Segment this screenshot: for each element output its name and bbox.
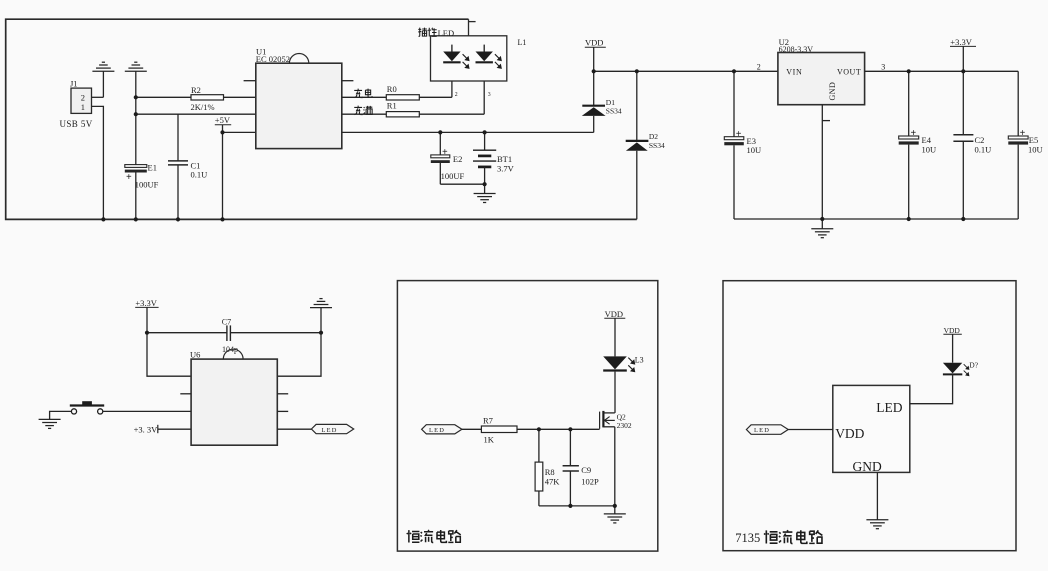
svg-text:LED: LED <box>876 400 902 415</box>
svg-text:6208-3.3V: 6208-3.3V <box>779 45 814 54</box>
svg-text:+: + <box>736 129 742 140</box>
wire D? to LED pin <box>910 374 953 403</box>
U6 left stub pin <box>180 393 191 395</box>
svg-text:SS34: SS34 <box>649 141 665 150</box>
ground (Q2 source) <box>604 506 626 523</box>
wire 7135 GND pin <box>876 472 878 519</box>
svg-text:LED: LED <box>754 427 770 434</box>
wire VDD row to U2 <box>594 70 778 72</box>
label chongdian (charging) <box>354 89 372 98</box>
capacitor C7 <box>147 317 321 353</box>
LED A inside L1 <box>443 45 469 69</box>
svg-text:7135: 7135 <box>735 531 760 545</box>
wire VOUT row <box>865 70 1019 72</box>
svg-text:102P: 102P <box>581 477 599 487</box>
U2 GND pin stem <box>822 105 830 229</box>
ground (U2) <box>811 229 833 238</box>
ground (battery) <box>474 194 496 203</box>
svg-text:L1: L1 <box>518 38 527 47</box>
svg-text:VDD: VDD <box>835 426 864 441</box>
net flag LED (U6 output) <box>277 424 353 434</box>
svg-text:U6: U6 <box>190 349 200 359</box>
wire J1 pin1 to bottom rail <box>92 106 104 219</box>
svg-text:2302: 2302 <box>617 421 632 430</box>
svg-text:R1: R1 <box>387 101 397 111</box>
svg-text:+3. 3V: +3. 3V <box>134 424 159 434</box>
ground (button) <box>39 419 61 428</box>
svg-text:USB 5V: USB 5V <box>60 119 93 129</box>
svg-text:2: 2 <box>757 62 761 71</box>
svg-text:+: + <box>442 147 448 158</box>
svg-text:VDD: VDD <box>605 309 623 319</box>
wire bottom row (middle box) <box>539 505 615 507</box>
net VDD (7135 led) <box>943 326 961 363</box>
svg-text:100UF: 100UF <box>441 171 465 181</box>
capacitor C2 <box>953 71 991 219</box>
svg-text:3: 3 <box>881 62 885 71</box>
svg-text:0.1U: 0.1U <box>975 144 992 154</box>
svg-text:+5V: +5V <box>215 115 231 125</box>
IC U6 <box>190 349 277 445</box>
wire frame to L1 top <box>468 19 470 36</box>
svg-text:E1: E1 <box>148 162 157 172</box>
IC U1 <box>256 46 342 148</box>
wire battery row <box>342 131 594 133</box>
wire J1 pin2 to ground <box>92 96 104 98</box>
capacitor E5 <box>1008 71 1042 219</box>
svg-text:2: 2 <box>455 92 458 98</box>
LED L3 <box>603 356 643 413</box>
label hengliu dianlu (constant current circuit) <box>407 530 461 543</box>
wire U1 pin row 2 <box>136 113 256 115</box>
resistor R2 <box>136 85 256 112</box>
net VDD (battery node) <box>585 38 606 72</box>
IC U3 7135 block <box>833 385 910 474</box>
svg-text:1: 1 <box>81 102 85 112</box>
capacitor E3 <box>724 71 761 219</box>
svg-text:J1: J1 <box>70 79 78 89</box>
svg-text:+3.3V: +3.3V <box>135 298 157 308</box>
push button S1 <box>70 401 104 414</box>
net +3.3V (regulator out) <box>950 37 976 71</box>
svg-text:R8: R8 <box>545 467 555 477</box>
ground G2 (filter) <box>125 62 147 164</box>
capacitor E2 <box>431 132 485 184</box>
wire U6 top-left branch <box>147 333 191 377</box>
svg-text:C7: C7 <box>222 317 231 326</box>
net +5V <box>215 115 256 219</box>
U6 right stub pins <box>277 393 288 395</box>
svg-text:SS34: SS34 <box>606 107 622 116</box>
label chongman (full) <box>354 106 372 115</box>
wire Q2 source down <box>614 427 616 506</box>
net flag LED (7135 input) <box>746 425 832 435</box>
svg-text:VIN: VIN <box>786 67 802 76</box>
wire LED2 cathode leg <box>483 63 485 114</box>
svg-text:R2: R2 <box>191 85 201 95</box>
svg-text:47K: 47K <box>545 477 561 487</box>
svg-text:10U: 10U <box>922 144 937 154</box>
frame tick near L1 <box>469 21 476 23</box>
LED B inside L1 <box>476 45 502 69</box>
capacitor C9 <box>563 429 599 506</box>
capacitor C1 <box>168 114 207 219</box>
svg-text:100UF: 100UF <box>135 179 159 189</box>
svg-text:2: 2 <box>81 93 85 103</box>
ground (U6 top right) <box>310 299 332 333</box>
svg-text:10U: 10U <box>747 145 762 155</box>
svg-text:C2: C2 <box>975 135 985 145</box>
svg-text:VOUT: VOUT <box>837 67 861 76</box>
ground G1 (USB input) <box>92 62 114 97</box>
svg-text:3.7V: 3.7V <box>497 164 515 174</box>
svg-text:LED: LED <box>438 28 455 38</box>
capacitor E4 <box>899 71 936 219</box>
label 7135 hengliu dianlu <box>735 530 822 545</box>
U1 right stub pin <box>342 80 354 82</box>
ground (7135) <box>866 520 888 529</box>
net VDD (L3) <box>604 309 625 357</box>
svg-text:VDD: VDD <box>944 326 961 335</box>
wire button to U6 <box>103 410 191 412</box>
U1 left stub pin <box>244 80 256 82</box>
svg-text:2K/1%: 2K/1% <box>191 102 215 112</box>
battery BT1 <box>473 132 515 193</box>
net +3.3V (U6 lower pin) <box>134 424 192 434</box>
LED module L1 box <box>418 28 526 81</box>
svg-text:EC 02052: EC 02052 <box>256 54 290 64</box>
capacitor E1 <box>125 162 159 219</box>
resistor R1 <box>342 101 484 117</box>
svg-text:R0: R0 <box>387 84 397 94</box>
resistor R8 <box>535 429 560 506</box>
svg-text:VDD: VDD <box>585 38 603 48</box>
svg-text:C9: C9 <box>581 465 591 475</box>
wire regulator ground rail <box>734 218 1018 220</box>
diode D1 SS34 <box>582 71 622 132</box>
svg-text:L3: L3 <box>635 356 644 365</box>
svg-text:LED: LED <box>429 427 445 434</box>
net +3.3V (U6 top) <box>135 298 158 333</box>
box constant-current circuit <box>397 281 657 551</box>
svg-text:+3.3V: +3.3V <box>950 37 972 47</box>
wire LED1 cathode leg <box>451 63 453 97</box>
svg-text:D?: D? <box>969 361 978 370</box>
svg-text:E2: E2 <box>453 154 462 164</box>
svg-text:R7: R7 <box>483 415 493 425</box>
MOSFET Q2 2302 <box>600 411 632 430</box>
resistor R0 <box>342 84 452 100</box>
net flag LED (gate input) <box>422 425 482 434</box>
LED D? <box>943 361 979 376</box>
wire button to ground <box>50 411 72 419</box>
svg-text:+: + <box>911 128 917 139</box>
svg-text:10U: 10U <box>1028 144 1043 154</box>
border frame top-left section <box>6 19 637 219</box>
regulator U2 6208-3.3V <box>778 37 865 105</box>
diode D2 SS34 (frame right leg) <box>626 71 665 219</box>
svg-text:+: + <box>126 172 132 183</box>
svg-text:LED: LED <box>322 427 338 434</box>
resistor R7 <box>481 415 599 444</box>
svg-text:D2: D2 <box>649 132 658 141</box>
svg-text:0.1U: 0.1U <box>191 170 208 180</box>
svg-text:1K: 1K <box>484 434 495 444</box>
wire U6 top-right branch <box>277 333 321 377</box>
svg-text:GND: GND <box>853 459 882 474</box>
box 7135 constant-current circuit <box>723 281 1016 551</box>
svg-text:D1: D1 <box>606 98 615 107</box>
svg-text:3: 3 <box>488 92 491 98</box>
svg-text:GND: GND <box>828 82 837 101</box>
svg-text:+: + <box>1020 128 1026 139</box>
connector J1 <box>60 79 93 129</box>
